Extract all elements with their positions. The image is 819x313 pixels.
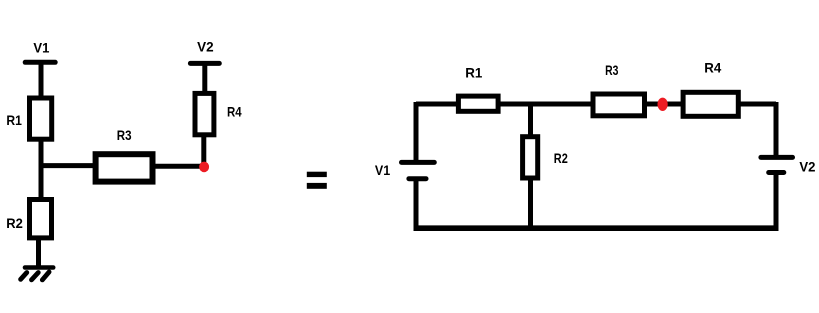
svg-text:R1: R1: [6, 112, 22, 128]
resistor R3: [593, 94, 645, 116]
wire V2 to R4: [202, 63, 207, 95]
resistor R4: [683, 92, 738, 116]
resistor R2: [523, 137, 538, 178]
voltage source V1 minus plate: [409, 176, 426, 181]
voltage source V2 minus plate: [769, 170, 784, 175]
wire right rail upper: [774, 102, 779, 157]
voltage source V1 plus plate: [402, 160, 435, 165]
wire left rail lower: [414, 179, 419, 230]
svg-text:R4: R4: [227, 103, 242, 119]
svg-text:R3: R3: [605, 62, 618, 78]
wire right rail lower: [774, 173, 779, 231]
svg-text:R2: R2: [554, 150, 568, 166]
svg-text:V1: V1: [375, 162, 390, 178]
wire V1 to R1: [39, 62, 44, 98]
voltage source V1 terminal bar: [25, 60, 55, 65]
svg-text:R3: R3: [117, 127, 132, 143]
equals sign: [307, 172, 327, 189]
resistor R3: [96, 154, 153, 181]
wire R2 to ground: [36, 238, 41, 267]
ground: [21, 268, 54, 280]
svg-text:V1: V1: [33, 40, 49, 56]
node A (red junction dot): [199, 162, 209, 173]
wire top rail: [416, 102, 776, 107]
resistor R1: [458, 96, 498, 111]
wire R4 to red node: [201, 135, 206, 166]
wire R3 to red node: [152, 164, 204, 169]
voltage source V2 terminal bar: [190, 61, 219, 66]
resistor R1: [30, 98, 52, 139]
resistor R4: [195, 93, 214, 134]
wire bottom rail: [414, 225, 779, 231]
wire R1 to node and R2: [39, 139, 44, 200]
svg-text:V2: V2: [197, 38, 214, 54]
wire left rail upper: [414, 102, 419, 162]
svg-text:V2: V2: [799, 159, 815, 175]
wire node to R3: [40, 163, 96, 168]
node B (red junction dot): [658, 98, 668, 111]
svg-text:R1: R1: [465, 65, 482, 81]
resistor R2: [30, 200, 52, 238]
svg-text:R2: R2: [6, 215, 23, 231]
voltage source V2 plus plate: [761, 155, 793, 160]
svg-text:R4: R4: [704, 60, 721, 76]
wire R2 branch: [528, 102, 533, 228]
